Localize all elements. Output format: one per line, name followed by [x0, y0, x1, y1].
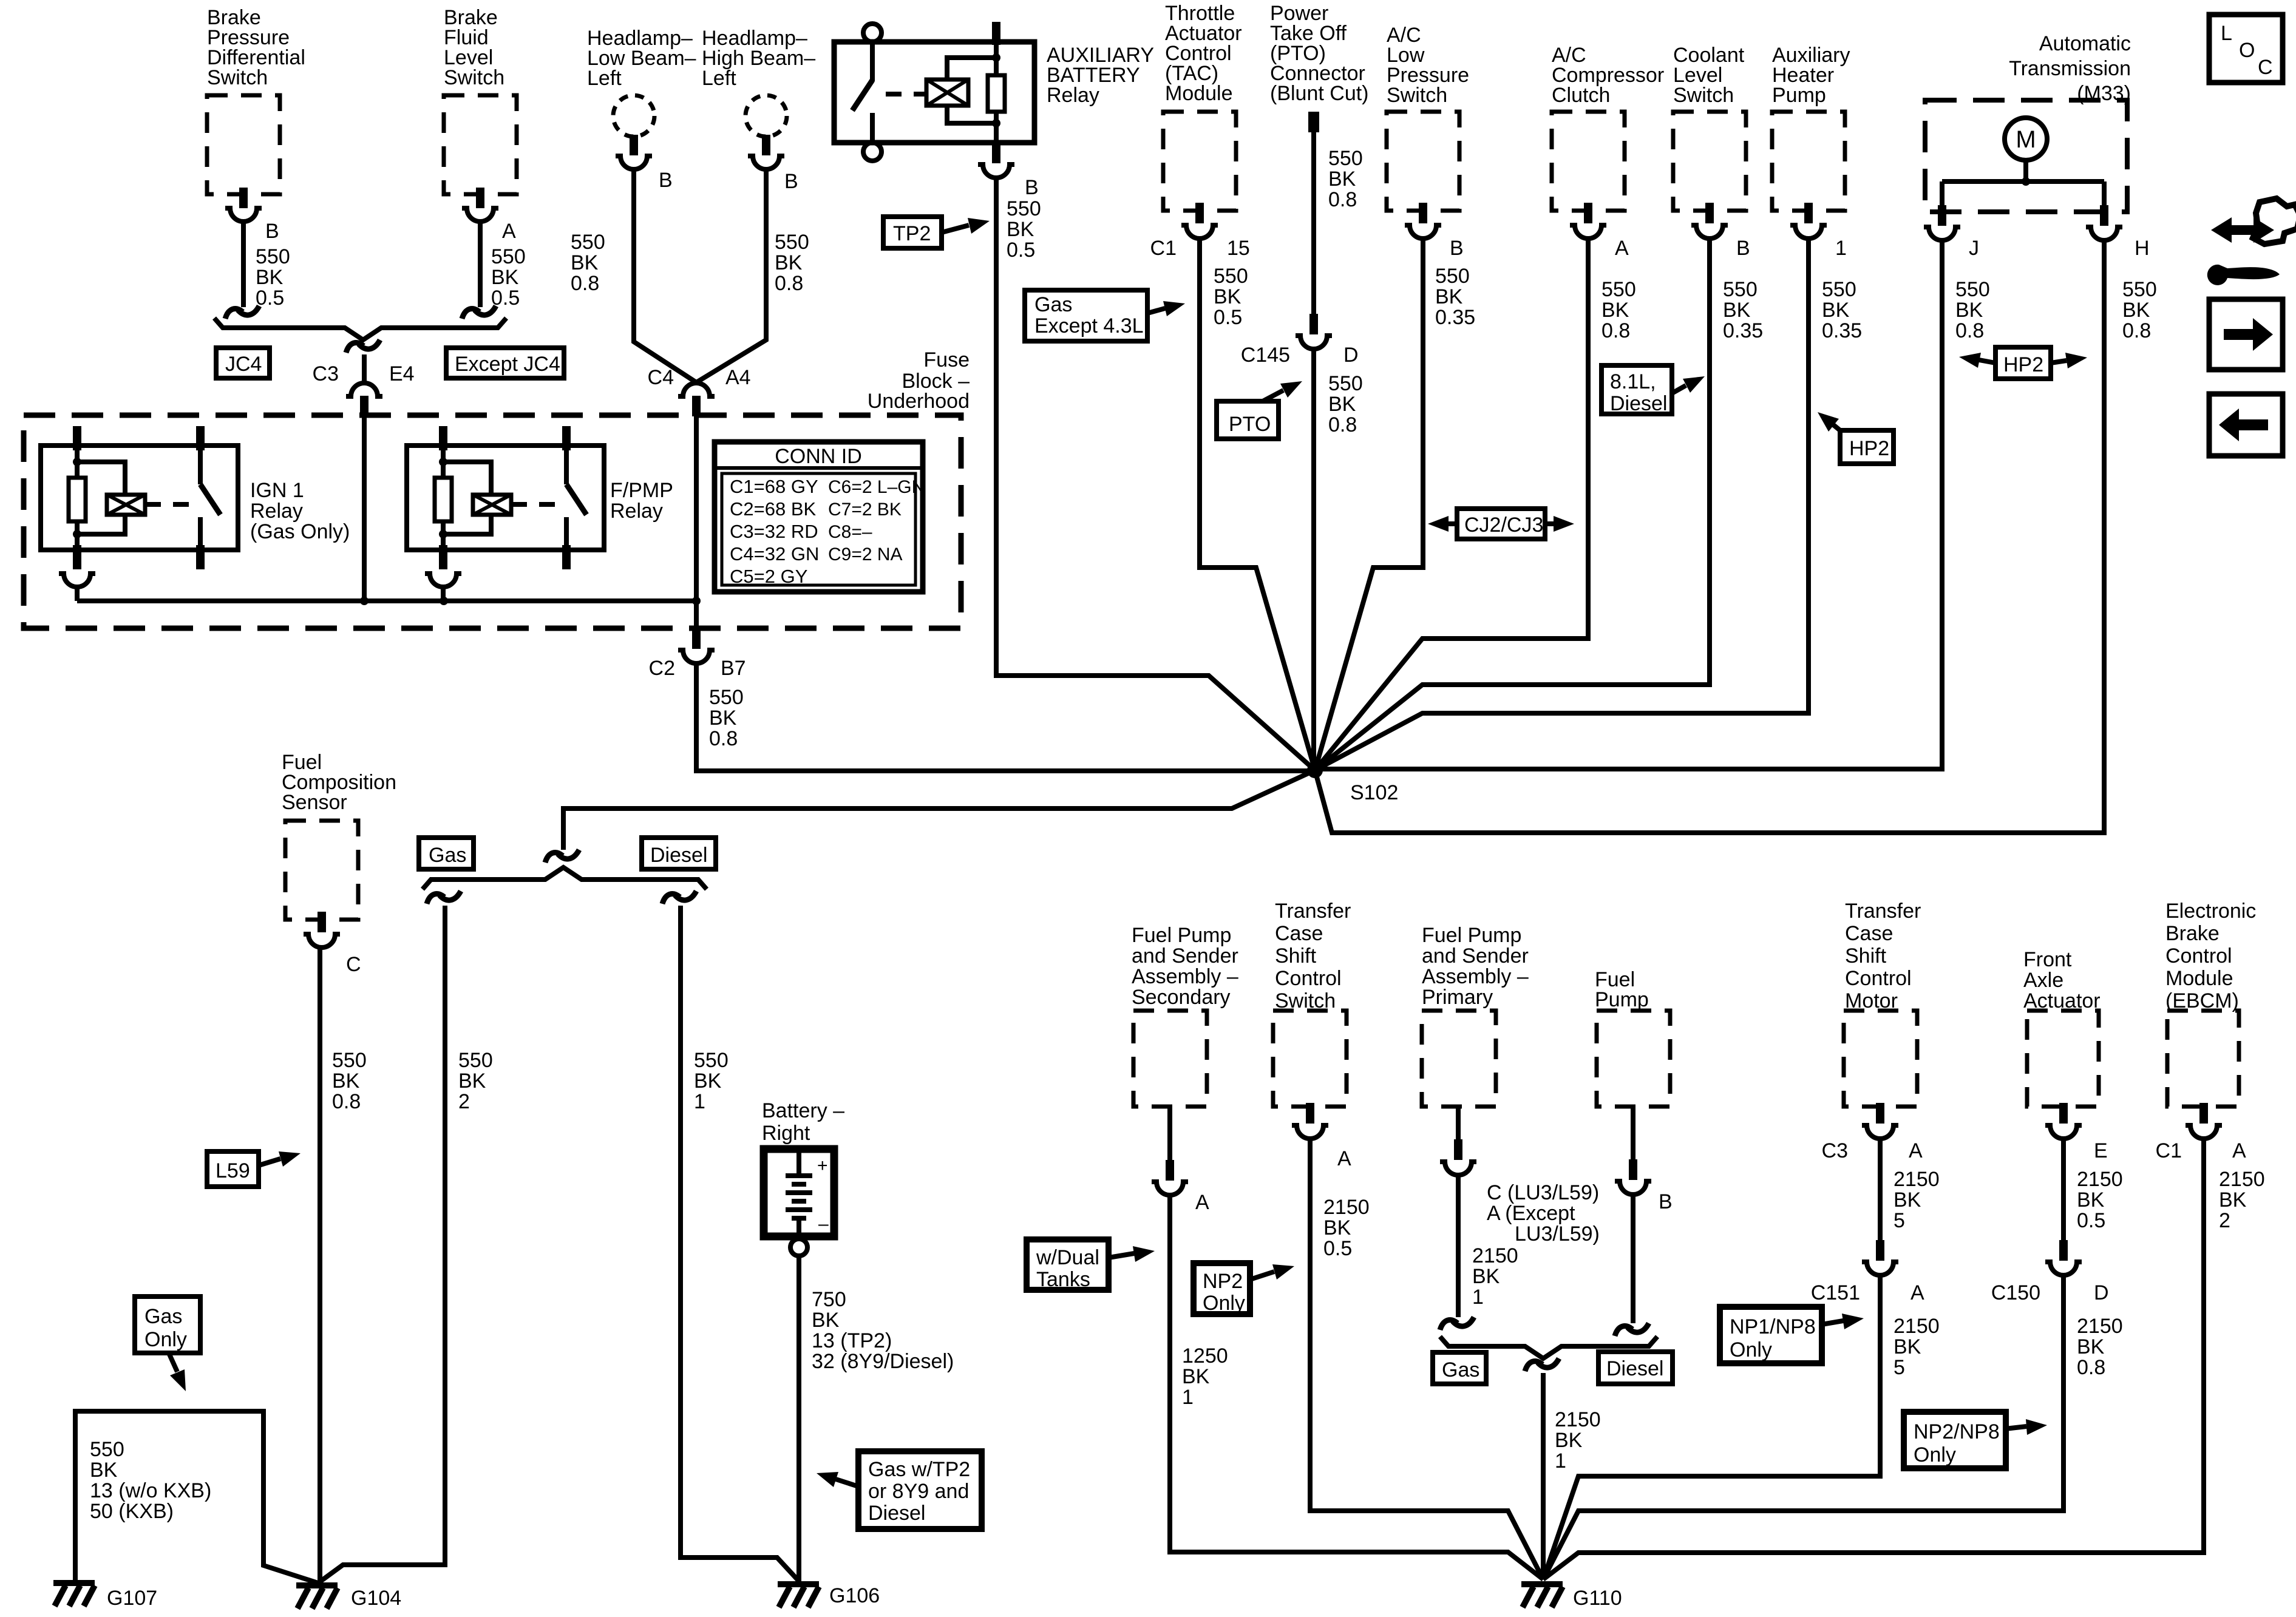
splice S102 [1307, 762, 1398, 804]
secondary fuel pump connector A [1152, 1107, 1209, 1214]
svg-text:550: 550 [1328, 147, 1363, 170]
Diesel option box (fuel pumps) [1598, 1352, 1673, 1384]
svg-text:C5=2 GY: C5=2 GY [730, 566, 807, 587]
svg-text:Switch: Switch [1387, 84, 1447, 107]
svg-text:C (LU3/L59): C (LU3/L59) [1487, 1181, 1599, 1204]
coolant level switch pin B [1691, 203, 1750, 260]
PTO option box [1217, 381, 1302, 439]
svg-text:G110: G110 [1573, 1587, 1622, 1610]
svg-text:Front: Front [2023, 948, 2072, 971]
svg-text:Switch: Switch [444, 66, 504, 89]
svg-text:550: 550 [1328, 372, 1363, 395]
svg-text:0.35: 0.35 [1723, 319, 1763, 342]
svg-text:JC4: JC4 [225, 353, 262, 376]
wire 550 BK 0.8 from fuel composition sensor to G104 [320, 948, 367, 1581]
svg-text:Pump: Pump [1772, 84, 1826, 107]
svg-text:Shift: Shift [1845, 944, 1887, 968]
svg-text:C1: C1 [2156, 1139, 2182, 1162]
svg-text:Case: Case [1275, 922, 1323, 945]
svg-text:50 (KXB): 50 (KXB) [90, 1500, 174, 1523]
svg-text:Switch: Switch [1275, 989, 1336, 1012]
svg-text:0.8: 0.8 [1601, 319, 1630, 342]
svg-text:(Blunt Cut): (Blunt Cut) [1270, 82, 1369, 105]
battery - right [762, 1099, 844, 1256]
svg-text:Fuse: Fuse [923, 348, 970, 371]
Diesel option box [642, 838, 716, 869]
svg-text:2150: 2150 [2077, 1315, 2123, 1338]
svg-text:15: 15 [1227, 237, 1250, 260]
svg-text:0.8: 0.8 [2122, 319, 2151, 342]
svg-text:550: 550 [256, 245, 290, 268]
svg-text:Gas: Gas [429, 844, 466, 867]
svg-text:w/Dual: w/Dual [1036, 1246, 1099, 1269]
svg-text:550: 550 [709, 686, 744, 709]
svg-text:Diesel: Diesel [868, 1502, 925, 1525]
wire 550 BK 0.8 from PTO connector [1314, 132, 1363, 316]
svg-text:Brake: Brake [2165, 922, 2220, 945]
svg-text:Only: Only [1730, 1338, 1772, 1361]
svg-text:BK: BK [1435, 285, 1463, 308]
svg-text:5: 5 [1894, 1209, 1905, 1232]
svg-text:550: 550 [1822, 278, 1856, 301]
svg-text:B: B [784, 170, 798, 193]
svg-text:2150: 2150 [2077, 1168, 2123, 1191]
wire 550 BK 0.5 from brake pressure switch [225, 222, 290, 319]
svg-text:550: 550 [1601, 278, 1636, 301]
svg-text:A: A [1615, 237, 1629, 260]
Gas Except 4.3L option box [1025, 290, 1185, 341]
inline connector C151 / A [1811, 1240, 1924, 1304]
svg-text:(M33): (M33) [2077, 82, 2131, 105]
svg-text:A: A [1195, 1191, 1209, 1214]
svg-text:Primary: Primary [1422, 986, 1493, 1009]
svg-text:BK: BK [1214, 285, 1241, 308]
Gas option box (fuel pumps) [1433, 1352, 1486, 1384]
svg-text:Transfer: Transfer [1845, 900, 1921, 923]
svg-text:550: 550 [491, 245, 526, 268]
svg-text:0.35: 0.35 [1435, 306, 1475, 329]
electronic brake control module (EBCM) [2165, 900, 2256, 1107]
front axle actuator [2023, 948, 2101, 1107]
svg-text:C9=2 NA: C9=2 NA [828, 544, 903, 564]
svg-text:C8=–: C8=– [828, 522, 872, 542]
svg-text:0.8: 0.8 [709, 727, 738, 750]
inline connector C145 / D [1241, 314, 1359, 367]
ground bus inside fuse block [77, 597, 696, 605]
svg-text:550: 550 [1723, 278, 1758, 301]
svg-text:1: 1 [1472, 1286, 1484, 1309]
svg-text:C145: C145 [1241, 344, 1290, 367]
svg-text:550: 550 [332, 1049, 367, 1072]
svg-text:2150: 2150 [1555, 1408, 1601, 1431]
wire 550 BK 0.35 from auxiliary heater pump to S102 [1315, 239, 1862, 770]
A/C compressor clutch [1552, 44, 1664, 211]
svg-text:BK: BK [775, 251, 803, 274]
forward arrow navigation box [2209, 299, 2283, 370]
svg-text:B: B [1025, 176, 1039, 199]
svg-text:J: J [1969, 237, 1979, 260]
svg-text:0.8: 0.8 [332, 1090, 361, 1113]
wire 550 BK 0.35 from coolant level switch to S102 [1315, 239, 1763, 770]
svg-text:2150: 2150 [1323, 1196, 1370, 1219]
svg-text:G104: G104 [351, 1587, 401, 1610]
svg-text:Right: Right [762, 1122, 810, 1145]
fuel pump and sender assembly - secondary [1132, 924, 1238, 1107]
wire 550 BK 0.8 from transmission H to S102 [1315, 241, 2157, 833]
svg-text:Pump: Pump [1595, 988, 1649, 1011]
ground G110 [1521, 1584, 1622, 1610]
relay F/PMP [407, 426, 673, 569]
w/Dual Tanks option box [1027, 1239, 1155, 1291]
svg-text:BK: BK [812, 1309, 840, 1332]
svg-text:BK: BK [90, 1459, 118, 1482]
svg-text:0.35: 0.35 [1822, 319, 1862, 342]
Gas w/TP2 or 8Y9 and Diesel option box [817, 1451, 982, 1529]
svg-text:A4: A4 [725, 366, 751, 389]
svg-text:0.8: 0.8 [1328, 413, 1357, 436]
svg-text:Switch: Switch [1673, 84, 1734, 107]
Except JC4 option box [446, 348, 564, 378]
svg-text:C150: C150 [1991, 1281, 2040, 1304]
svg-text:Control: Control [1845, 967, 1912, 990]
svg-text:550: 550 [1435, 265, 1470, 288]
aux battery relay output pin B [978, 123, 1039, 199]
transfer case switch pin A [1292, 1103, 1351, 1170]
svg-text:Axle: Axle [2023, 969, 2063, 992]
svg-text:Case: Case [1845, 922, 1893, 945]
svg-text:L: L [2221, 22, 2232, 45]
svg-text:BK: BK [256, 266, 284, 289]
NP2/NP8 Only option box [1904, 1412, 2047, 1468]
svg-text:BK: BK [2077, 1188, 2105, 1212]
svg-text:Sensor: Sensor [282, 791, 347, 814]
svg-text:550: 550 [1007, 197, 1041, 220]
A/C low pressure switch pin B [1405, 203, 1464, 260]
svg-text:BK: BK [1601, 299, 1629, 322]
svg-text:C: C [346, 953, 361, 976]
wire 2150 BK 1 from primary fuel pump [1440, 1176, 1518, 1330]
svg-text:PTO: PTO [1229, 413, 1271, 436]
svg-text:Relay: Relay [610, 500, 663, 523]
svg-text:M: M [2016, 126, 2036, 153]
svg-text:0.5: 0.5 [1214, 306, 1242, 329]
motor M inside automatic transmission [2005, 118, 2047, 160]
NP1/NP8 Only option box [1720, 1307, 1864, 1363]
svg-text:B: B [659, 169, 673, 192]
fuel pump and sender assembly - primary [1422, 924, 1529, 1107]
svg-text:A: A [1337, 1147, 1351, 1170]
svg-text:BK: BK [709, 707, 737, 730]
svg-text:550: 550 [1955, 278, 1990, 301]
brake fluid level switch [444, 6, 517, 194]
svg-text:2150: 2150 [1472, 1244, 1518, 1267]
svg-text:A: A [1911, 1281, 1924, 1304]
svg-text:HP2: HP2 [2003, 353, 2043, 376]
svg-text:Gas: Gas [144, 1305, 182, 1328]
svg-text:NP2: NP2 [1203, 1270, 1243, 1293]
wire 2150 BK 1 from brace to G110 [1525, 1358, 1601, 1579]
svg-text:2150: 2150 [1894, 1168, 1940, 1191]
svg-text:BK: BK [1328, 393, 1356, 416]
IGN 1 relay output connector [59, 549, 95, 601]
wire 1250 BK 1 from secondary fuel pump to G110 [1170, 1196, 1543, 1579]
svg-text:0.8: 0.8 [1955, 319, 1984, 342]
auxiliary heater pump pin 1 [1790, 203, 1847, 260]
HP2 option box (heater pump) [1818, 412, 1894, 464]
svg-text:550: 550 [458, 1049, 493, 1072]
coolant level switch [1673, 44, 1746, 211]
back arrow navigation box [2209, 394, 2283, 456]
E4 wire inside fuse block [362, 416, 367, 601]
wire 2150 BK 0.8 from C150 to G110 [1543, 1276, 2123, 1579]
svg-text:8.1L,: 8.1L, [1610, 370, 1656, 393]
headlamp low beam left [587, 27, 696, 137]
svg-text:BK: BK [1723, 299, 1751, 322]
TAC module pin C1 / 15 [1150, 203, 1250, 260]
transmission pin H [2086, 205, 2150, 260]
transfer case shift control motor [1844, 900, 1921, 1107]
pin B of brake pressure differential switch [225, 188, 279, 243]
svg-text:Diesel: Diesel [1610, 392, 1667, 415]
CJ2/CJ3 option box [1428, 509, 1574, 539]
svg-text:BK: BK [458, 1070, 486, 1093]
svg-text:550: 550 [90, 1438, 124, 1461]
TP2 option box [883, 217, 990, 248]
A/C compressor clutch pin A [1570, 203, 1629, 260]
svg-text:Secondary: Secondary [1132, 986, 1231, 1009]
svg-text:B: B [1736, 237, 1750, 260]
internal wiring of automatic transmission [1942, 160, 2104, 206]
A/C low pressure switch [1387, 24, 1469, 211]
svg-text:C151: C151 [1811, 1281, 1860, 1304]
gas/diesel brace for fuel pumps [1440, 1337, 1657, 1358]
svg-text:BK: BK [1894, 1188, 1921, 1212]
svg-text:0.8: 0.8 [775, 272, 803, 295]
svg-text:Battery –: Battery – [762, 1099, 844, 1122]
svg-text:Assembly –: Assembly – [1422, 965, 1529, 988]
wire from fuel pump to gas/diesel brace [1615, 1195, 1649, 1336]
wire 550 BK 0.8 from C145 to S102 [1314, 350, 1363, 770]
svg-text:BK: BK [2077, 1335, 2105, 1358]
fuel composition sensor pin C [304, 912, 361, 976]
svg-text:2: 2 [458, 1090, 470, 1113]
svg-text:B: B [265, 220, 279, 243]
svg-text:2150: 2150 [1894, 1315, 1940, 1338]
svg-text:BK: BK [1955, 299, 1983, 322]
transfer case shift control switch [1273, 900, 1351, 1107]
inline connector C3 / E4 [313, 340, 415, 416]
svg-text:Fuel Pump: Fuel Pump [1132, 924, 1231, 947]
svg-text:2150: 2150 [2219, 1168, 2265, 1191]
pin B of headlamp high beam [748, 135, 798, 193]
svg-text:NP1/NP8: NP1/NP8 [1730, 1315, 1816, 1338]
svg-text:550: 550 [1214, 265, 1248, 288]
svg-text:Tanks: Tanks [1036, 1268, 1090, 1291]
Gas Only option box [135, 1297, 200, 1391]
svg-text:13 (TP2): 13 (TP2) [812, 1329, 892, 1352]
svg-text:Automatic: Automatic [2039, 32, 2131, 55]
L59 option box [207, 1151, 301, 1187]
ground G107 [53, 1583, 157, 1610]
svg-text:550: 550 [2122, 278, 2157, 301]
svg-text:Transmission: Transmission [2009, 57, 2131, 80]
svg-text:BK: BK [1007, 218, 1034, 241]
svg-text:BK: BK [1472, 1265, 1500, 1288]
svg-text:Diesel: Diesel [650, 844, 707, 867]
svg-text:0.5: 0.5 [491, 286, 520, 310]
svg-text:5: 5 [1894, 1356, 1905, 1379]
svg-text:C3=32 RD: C3=32 RD [730, 521, 818, 542]
svg-text:C7=2 BK: C7=2 BK [828, 500, 902, 520]
svg-text:C4: C4 [648, 366, 674, 389]
svg-text:B: B [1450, 237, 1464, 260]
svg-text:0.5: 0.5 [1323, 1237, 1352, 1260]
svg-text:HP2: HP2 [1849, 437, 1889, 460]
transmission pin J [1924, 205, 1979, 260]
svg-text:Left: Left [587, 67, 622, 90]
fuel composition sensor [282, 751, 396, 920]
svg-text:0.8: 0.8 [571, 272, 599, 295]
wire 550 BK 2 (gas) to G104 [318, 891, 493, 1583]
svg-text:BK: BK [1323, 1216, 1351, 1239]
svg-text:C6=2 L–GN: C6=2 L–GN [828, 477, 925, 497]
svg-text:1: 1 [1555, 1449, 1566, 1473]
wire 2150 BK 0.5 from front axle actuator [2063, 1139, 2123, 1242]
ground G104 [296, 1585, 401, 1610]
wire 550 BK 0.8 from A/C compressor clutch to S102 [1315, 239, 1636, 770]
svg-text:Transfer: Transfer [1275, 900, 1351, 923]
wire 2150 BK 0.5 from transfer case switch to G110 [1310, 1139, 1543, 1579]
wire 2150 BK 5 (lower) from C151 to G110 [1543, 1276, 1940, 1579]
HP2 option box (transmission) [1959, 347, 2087, 379]
svg-text:BK: BK [2122, 299, 2150, 322]
svg-text:Diesel: Diesel [1606, 1357, 1663, 1380]
power take off (PTO) connector (blunt cut) [1270, 2, 1369, 132]
wire 550 BK 1 (diesel) to G106 [662, 891, 800, 1582]
svg-text:Switch: Switch [207, 66, 268, 89]
svg-text:BK: BK [1555, 1429, 1583, 1452]
svg-text:Shift: Shift [1275, 944, 1317, 968]
svg-text:0.8: 0.8 [2077, 1356, 2105, 1379]
brace joining brake switch wires [214, 318, 506, 340]
svg-text:A: A [502, 220, 516, 243]
svg-text:0.5: 0.5 [2077, 1209, 2105, 1232]
svg-text:S102: S102 [1350, 781, 1398, 804]
svg-text:C1=68 GY: C1=68 GY [730, 476, 818, 497]
svg-text:C3: C3 [1822, 1139, 1848, 1162]
svg-text:Gas: Gas [1034, 293, 1072, 316]
wire 550 BK 0.5 from aux battery relay to S102 [996, 178, 1315, 770]
svg-text:LU3/L59): LU3/L59) [1515, 1222, 1600, 1246]
svg-text:(EBCM): (EBCM) [2165, 989, 2239, 1012]
wire 550 BK 13/50 (gas only) between G107 and G104 [75, 1411, 318, 1583]
svg-text:BK: BK [332, 1070, 360, 1093]
svg-text:Only: Only [1203, 1292, 1245, 1315]
fuel pump connector B [1615, 1107, 1673, 1213]
svg-text:Actuator: Actuator [2023, 989, 2101, 1012]
svg-text:C1: C1 [1150, 237, 1177, 260]
svg-text:NP2/NP8: NP2/NP8 [1914, 1420, 2000, 1443]
svg-text:and Sender: and Sender [1422, 944, 1529, 968]
svg-text:CJ2/CJ3: CJ2/CJ3 [1464, 514, 1543, 537]
fuel pump [1595, 968, 1670, 1107]
svg-text:–: – [818, 1214, 829, 1234]
svg-text:H: H [2135, 237, 2150, 260]
svg-text:Electronic: Electronic [2165, 900, 2256, 923]
svg-text:C3: C3 [313, 362, 339, 385]
inline connector C4 / A4 [648, 366, 751, 416]
pin B of headlamp low beam [616, 135, 673, 192]
svg-text:Assembly –: Assembly – [1132, 965, 1238, 988]
svg-text:1: 1 [694, 1090, 705, 1113]
svg-text:Control: Control [2165, 944, 2232, 968]
auxiliary battery relay [834, 24, 1154, 161]
svg-text:Module: Module [2165, 967, 2233, 990]
svg-text:Only: Only [1914, 1443, 1956, 1466]
LOC legend box [2209, 15, 2283, 83]
svg-text:Gas w/TP2: Gas w/TP2 [868, 1458, 970, 1481]
svg-text:550: 550 [694, 1049, 729, 1072]
svg-text:BK: BK [1182, 1365, 1210, 1388]
svg-text:BK: BK [2219, 1188, 2247, 1212]
svg-text:0.5: 0.5 [256, 286, 284, 310]
transfer case motor pin C3 / A [1822, 1103, 1923, 1162]
svg-text:Except 4.3L: Except 4.3L [1034, 314, 1144, 337]
svg-text:550: 550 [775, 231, 809, 254]
svg-text:1: 1 [1835, 237, 1847, 260]
svg-text:0.5: 0.5 [1007, 239, 1035, 262]
svg-text:TP2: TP2 [893, 222, 931, 245]
svg-text:+: + [817, 1156, 828, 1176]
svg-text:Motor: Motor [1845, 989, 1898, 1012]
JC4 option box [216, 348, 270, 378]
wire 2150 BK 5 (upper) from transfer case motor [1880, 1139, 1940, 1242]
wire 750 BK from battery to G106 [799, 1256, 954, 1582]
svg-text:Only: Only [144, 1328, 187, 1351]
svg-text:BK: BK [1328, 168, 1356, 191]
svg-text:CONN ID: CONN ID [775, 445, 862, 468]
svg-text:Clutch: Clutch [1552, 84, 1610, 107]
svg-text:13 (w/o KXB): 13 (w/o KXB) [90, 1479, 211, 1502]
wire 550 BK 0.8 from headlamp high beam [696, 170, 809, 382]
svg-text:D: D [1343, 344, 1359, 367]
svg-text:and Sender: and Sender [1132, 944, 1238, 968]
svg-text:A (Except: A (Except [1487, 1202, 1575, 1225]
svg-text:Fuel Pump: Fuel Pump [1422, 924, 1521, 947]
wire 2150 BK 2 from EBCM to G110 [1543, 1139, 2265, 1579]
automatic transmission (M33) [1925, 32, 2131, 212]
svg-text:E4: E4 [389, 362, 415, 385]
svg-text:BK: BK [1822, 299, 1850, 322]
wire 550 BK 0.5 from TAC module to S102 [1200, 239, 1315, 770]
inline connector C150 / D [1991, 1240, 2109, 1304]
svg-text:C2=68 BK: C2=68 BK [730, 498, 817, 520]
svg-text:750: 750 [812, 1288, 846, 1311]
svg-text:O: O [2239, 39, 2255, 62]
svg-text:F/PMP: F/PMP [610, 479, 673, 502]
auxiliary heater pump [1772, 44, 1850, 211]
svg-text:Underhood: Underhood [868, 390, 970, 413]
svg-text:E: E [2094, 1139, 2108, 1162]
front axle actuator pin E [2045, 1103, 2108, 1162]
svg-text:2: 2 [2219, 1209, 2230, 1232]
svg-text:Module: Module [1165, 82, 1233, 105]
svg-text:Left: Left [702, 67, 736, 90]
wire from C4/A4 into fuse block [692, 416, 701, 605]
brake pressure differential switch [207, 6, 305, 194]
svg-text:Relay: Relay [1047, 84, 1099, 107]
svg-text:1250: 1250 [1182, 1344, 1228, 1368]
